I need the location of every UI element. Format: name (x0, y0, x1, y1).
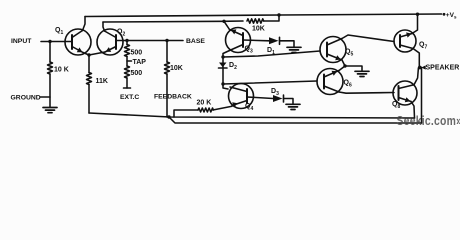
svg-text:EXT.C: EXT.C (120, 94, 139, 101)
wire feedback R bottom to rail (166, 74, 168, 117)
wire bottom rail 2 jog (169, 117, 422, 123)
node feedback rail junction (167, 115, 170, 118)
svg-text:Q1: Q1 (55, 27, 63, 36)
svg-text:Q7: Q7 (419, 42, 427, 51)
wire Q2 emitter (89, 52, 105, 55)
ground symbol mid (355, 71, 369, 76)
wire speaker node down rail (421, 68, 423, 124)
wire input to Q1 base (41, 41, 72, 43)
svg-text:Seekic.com»: Seekic.com» (397, 114, 460, 128)
wire Q3 base to D1 (243, 39, 269, 42)
wire Q7 collector to rail A (412, 14, 418, 33)
svg-text:FEEDBACK: FEEDBACK (154, 94, 192, 101)
ground symbol D1 (287, 47, 301, 52)
wire BASE stub (167, 40, 183, 42)
transistor Q4 (mirrored) (229, 84, 254, 109)
svg-text:+Vs: +Vs (446, 12, 457, 20)
wire D2 vertical (222, 57, 224, 84)
svg-text:11K: 11K (96, 78, 108, 85)
wire Q1 emitter (83, 53, 89, 56)
node rail A / Q7 junction (416, 13, 419, 16)
wire Q3 lower lead (223, 51, 230, 58)
node Q5 base branch (221, 55, 224, 58)
wire mid node to ground (345, 66, 362, 71)
wire ground dash (40, 96, 50, 98)
resistor R-500 upper (125, 45, 130, 57)
transistor Q6 (317, 69, 343, 95)
wire Q6 base line (223, 81, 317, 84)
wire 11K to bottom rail (88, 85, 90, 114)
svg-text:INPUT: INPUT (11, 38, 32, 45)
svg-text:Q8: Q8 (392, 101, 400, 110)
wire 20K branch (174, 110, 198, 117)
svg-text:10 K: 10 K (54, 67, 69, 74)
wire rail A top (85, 14, 442, 17)
svg-text:10K: 10K (170, 65, 183, 72)
wire Q2 collector up (103, 22, 105, 31)
wire Q5 base line (223, 51, 320, 57)
svg-text:500: 500 (131, 70, 143, 77)
wire Q1 collector up (83, 17, 86, 31)
wire Q5 collector to Q7 base (342, 35, 394, 42)
transistor Q7 (394, 30, 416, 52)
wire Q8 collector to speaker rail (414, 68, 418, 85)
wire Q3 emitter to rail B (224, 21, 230, 29)
transistor Q3 (mirrored) (226, 28, 251, 53)
resistor R-500 lower (125, 66, 130, 78)
wire feedback R top lead (166, 41, 168, 63)
svg-text:500: 500 (131, 50, 143, 57)
transistor Q2 (mirrored) (97, 29, 123, 55)
wire 500 chain upper lead (126, 41, 128, 45)
svg-text:Q6: Q6 (344, 80, 352, 89)
resistor R-10K input (48, 62, 53, 74)
wire 20K to Q4 emitter (213, 106, 232, 110)
wire D1 to ground (280, 41, 295, 47)
svg-text:Q4: Q4 (245, 103, 253, 112)
node rail B / Q3 junction (222, 20, 225, 23)
svg-text:Q3: Q3 (245, 46, 253, 55)
wire rail B (103, 21, 243, 22)
wire 10K bottom to ground (49, 74, 51, 107)
wire 500 chain bottom lead (126, 78, 128, 88)
transistor Q8 (393, 81, 417, 105)
node EXT.C tick (124, 87, 131, 89)
svg-text:D2: D2 (229, 62, 237, 71)
wire bottom rail 1 (89, 113, 415, 118)
wire Q2 base lead (116, 40, 127, 42)
wire D2 node to Q4 (223, 84, 228, 89)
wire Q5 emitter to mid node (342, 60, 345, 66)
wire 10K top lead (49, 42, 51, 63)
wire emitter node down (88, 55, 90, 73)
node mid ground junction (343, 64, 346, 67)
wire Q4 base to D3 (247, 97, 273, 99)
node input/10K junction (48, 40, 51, 43)
node emitter junction (87, 53, 90, 56)
wire base row to feedback R (127, 40, 167, 42)
svg-text:BASE: BASE (186, 38, 205, 45)
resistor R-10K feedback (165, 62, 170, 74)
ground symbol left (43, 108, 57, 113)
svg-text:SPEAKER: SPEAKER (426, 64, 460, 71)
wire 500 middle (126, 57, 128, 67)
diode D2 (219, 63, 228, 69)
node TAP tick (127, 60, 132, 62)
node Q6 base branch (221, 82, 224, 85)
svg-text:10K: 10K (252, 26, 265, 33)
resistor R-10K top (247, 19, 264, 23)
diode D3 (273, 95, 284, 102)
ground symbol D3 (286, 104, 300, 109)
resistor R-20K (198, 108, 213, 112)
wire D3 to ground (284, 99, 294, 105)
node +Vs bullet (443, 13, 446, 16)
svg-text:Q5: Q5 (345, 49, 353, 58)
node speaker junction (418, 66, 422, 70)
wire 10K top to rail A (264, 15, 279, 21)
resistor R-11K (87, 73, 92, 85)
svg-text:D3: D3 (271, 88, 279, 97)
transistor Q1 (65, 29, 91, 55)
node 500 chain top (125, 39, 128, 42)
svg-text:TAP: TAP (133, 59, 147, 66)
svg-text:20 K: 20 K (197, 100, 212, 107)
node base-feedback junction (165, 39, 168, 42)
wire Q8 emitter to bottom rail (411, 102, 415, 119)
svg-text:GROUND: GROUND (11, 95, 41, 102)
transistor Q5 (320, 37, 346, 63)
wire Q7 emitter to speaker node (413, 49, 419, 68)
node rail A / 10K junction (277, 13, 280, 16)
speaker arrow (421, 65, 425, 69)
wire Q6 emitter to Q8 base (339, 92, 394, 93)
wire Q6 collector to mid node (339, 66, 345, 71)
diode D1 (269, 37, 280, 44)
